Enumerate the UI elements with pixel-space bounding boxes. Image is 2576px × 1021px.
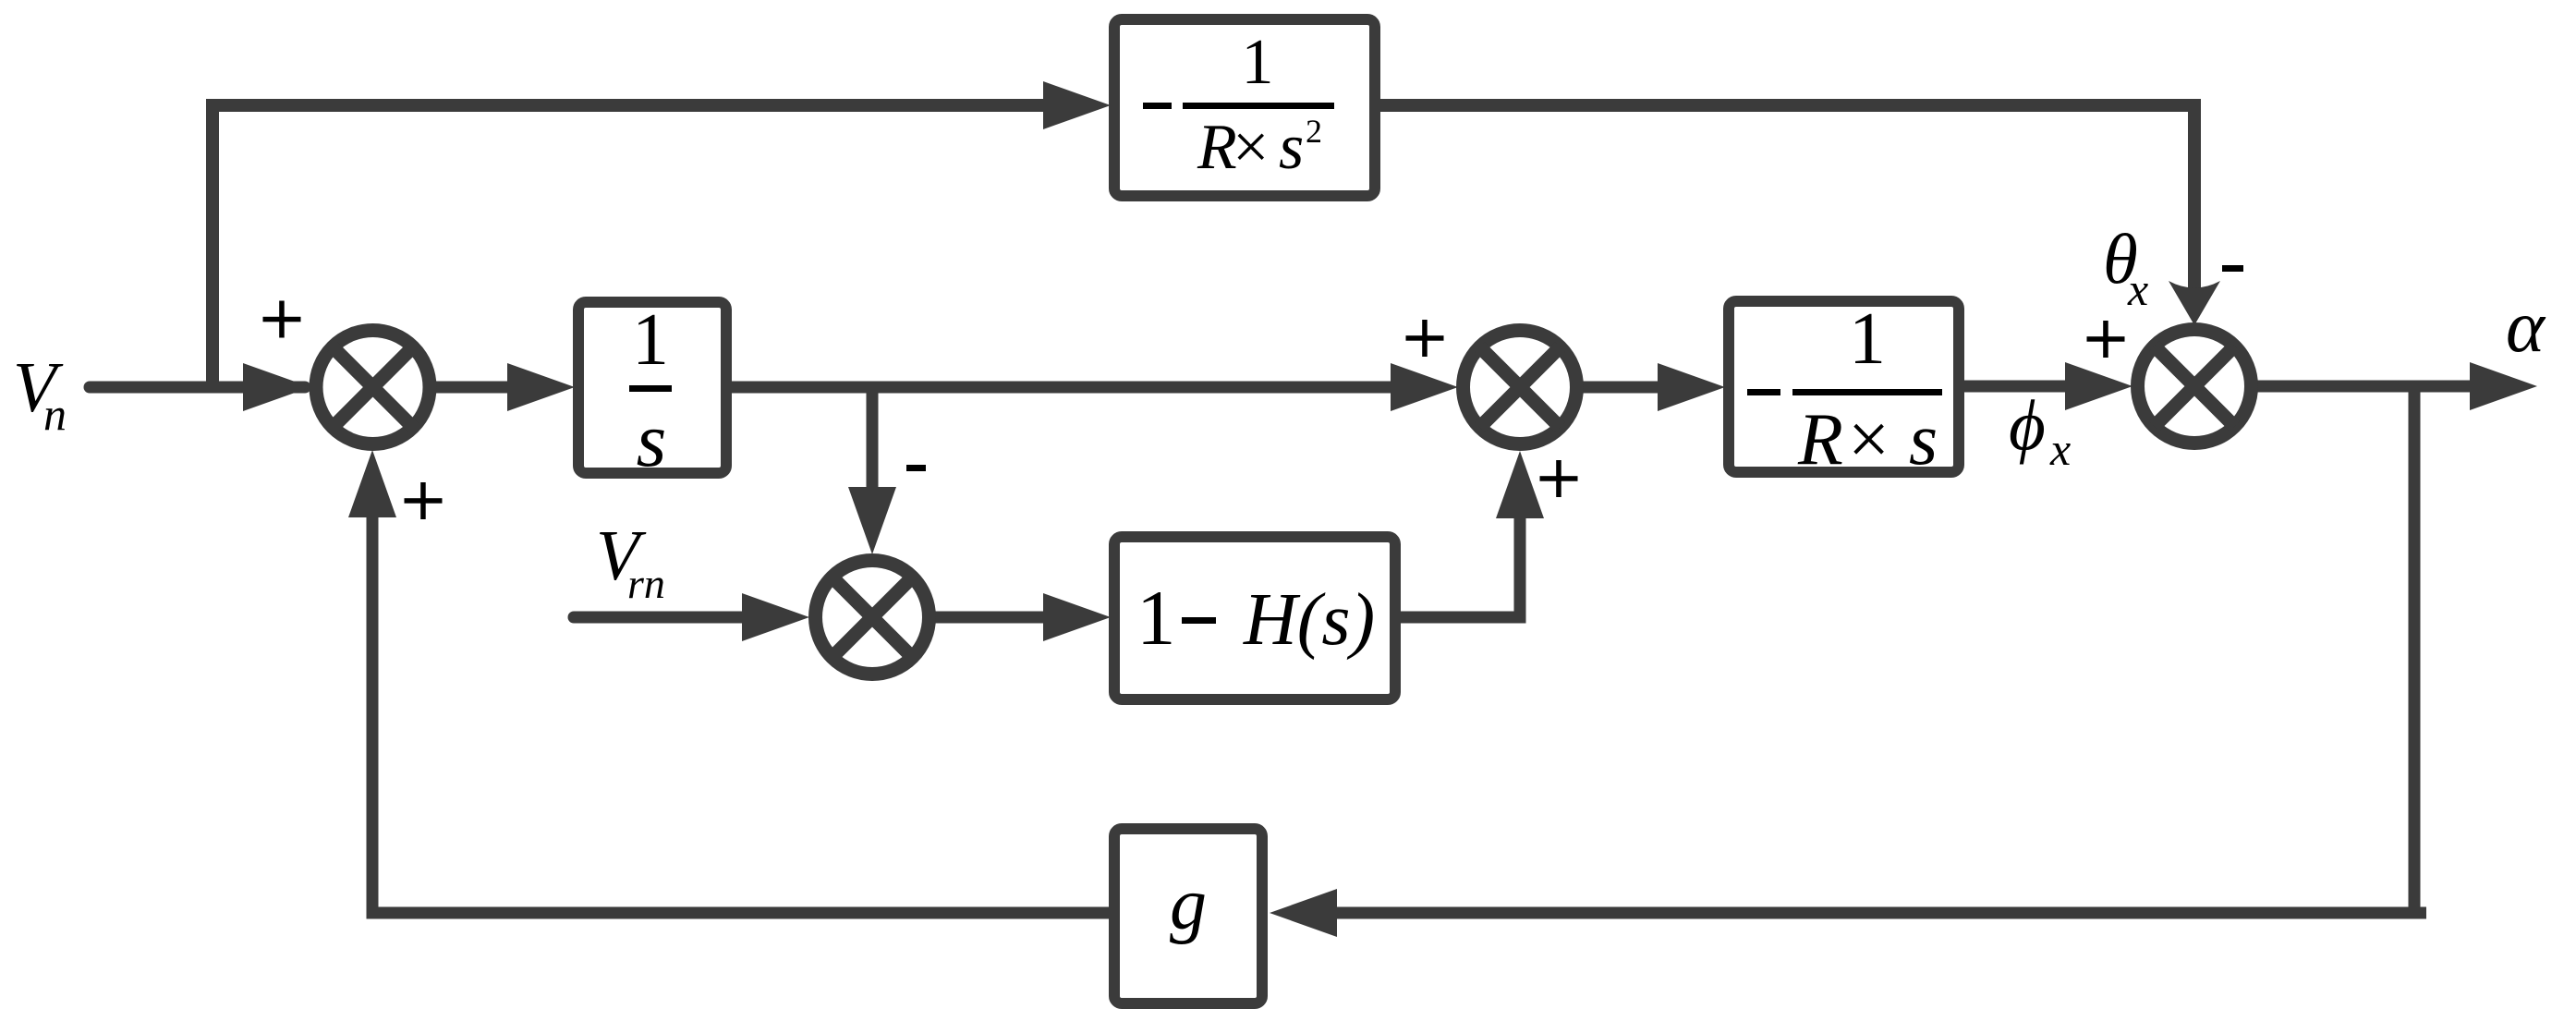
block 1-H(s) [1114, 537, 1395, 699]
arrowhead output alpha [2470, 362, 2537, 410]
sign plus at S1 input top [263, 301, 301, 338]
svg-text:1: 1 [1242, 27, 1274, 98]
block -1/(R*s) [1729, 298, 1959, 480]
svg-text:R×s: R×s [1797, 399, 1938, 480]
wire S2 to block -1/(R*s) [1582, 382, 1668, 394]
wire feedforward branch up from Vn node [206, 105, 219, 393]
sign plus at S3 input left [2087, 321, 2125, 358]
sign minus at S4 input top [906, 465, 926, 471]
svg-text:R×s2: R×s2 [1197, 112, 1322, 183]
summing junction S1 [316, 331, 430, 444]
arrowhead into summing junction S3 left [2065, 362, 2132, 410]
summing junction S2 [1464, 331, 1577, 444]
wire S4 to block 1-H(s) [934, 612, 1053, 624]
wire block -1/(R*s) to summing junction S3 [1964, 381, 2074, 393]
sign plus at S2 input left [1406, 320, 1444, 357]
arrowhead up into summing junction S2 bottom [1496, 451, 1544, 518]
sign plus at S1 input bottom [405, 482, 443, 519]
svg-text:s: s [637, 397, 667, 483]
wire feedback branch down on right [2414, 386, 2426, 913]
arrowhead into summing junction S2 [1391, 363, 1458, 411]
wire top feedforward horizontal [206, 99, 1053, 112]
block g [1114, 829, 1262, 1003]
summing junction S3 [2138, 330, 2252, 444]
wire block 1/s to summing junction S2 [730, 382, 1404, 394]
wire block g to left feedback and up into S1 [372, 508, 1109, 913]
arrowhead into block -1/(R*s) [1658, 363, 1725, 411]
sign plus at S2 input bottom [1540, 460, 1578, 497]
arrowhead into block 1/s [507, 363, 575, 411]
arrowhead up into summing junction S1 bottom [348, 450, 396, 517]
svg-text:1: 1 [1136, 575, 1176, 662]
arrowhead down into summing junction S3 [2169, 281, 2220, 325]
wire S3 to output alpha [2257, 381, 2476, 393]
wire Vn input [90, 382, 305, 394]
svg-text:α: α [2506, 286, 2546, 368]
svg-text:g: g [1170, 864, 1207, 945]
wire block 1-H(s) up into summing junction S2 [1401, 508, 1520, 617]
svg-text:rn: rn [627, 560, 665, 607]
label theta_x [2103, 219, 2148, 315]
summing junction S4 [816, 561, 930, 675]
wire branch down from node to summing junction S4 [867, 387, 879, 492]
label phi_x [2009, 385, 2071, 475]
svg-text:ϕ: ϕ [2009, 385, 2046, 465]
svg-text:1: 1 [1849, 298, 1886, 380]
svg-text:1: 1 [632, 299, 669, 381]
wire Vrn input [574, 612, 753, 624]
wire bottom feedback to block g [1331, 907, 2421, 919]
svg-text:x: x [2127, 263, 2148, 315]
arrowhead into block g right side [1270, 889, 1337, 937]
svg-text:H(s): H(s) [1243, 579, 1375, 661]
block 1/s [578, 299, 726, 483]
svg-text:x: x [2049, 423, 2071, 475]
wire from block -1/(R*s^2) to corner and down to S3 [1380, 105, 2194, 305]
arrowhead Vrn into summing junction S4 [742, 593, 809, 641]
arrowhead into block -1/(R*s^2) [1043, 81, 1111, 129]
wire S1 to block 1/s [434, 382, 517, 394]
svg-text:n: n [43, 388, 67, 440]
sign minus at S3 input top [2222, 265, 2243, 272]
label Vrn [596, 516, 665, 607]
arrowhead into block 1-H(s) [1043, 593, 1111, 641]
block -1/(R*s^2) [1114, 19, 1375, 196]
label alpha [2506, 286, 2546, 368]
arrowhead down into summing junction S4 [848, 487, 896, 554]
label Vn [13, 347, 67, 440]
arrowhead into summing junction S1 [243, 363, 310, 411]
